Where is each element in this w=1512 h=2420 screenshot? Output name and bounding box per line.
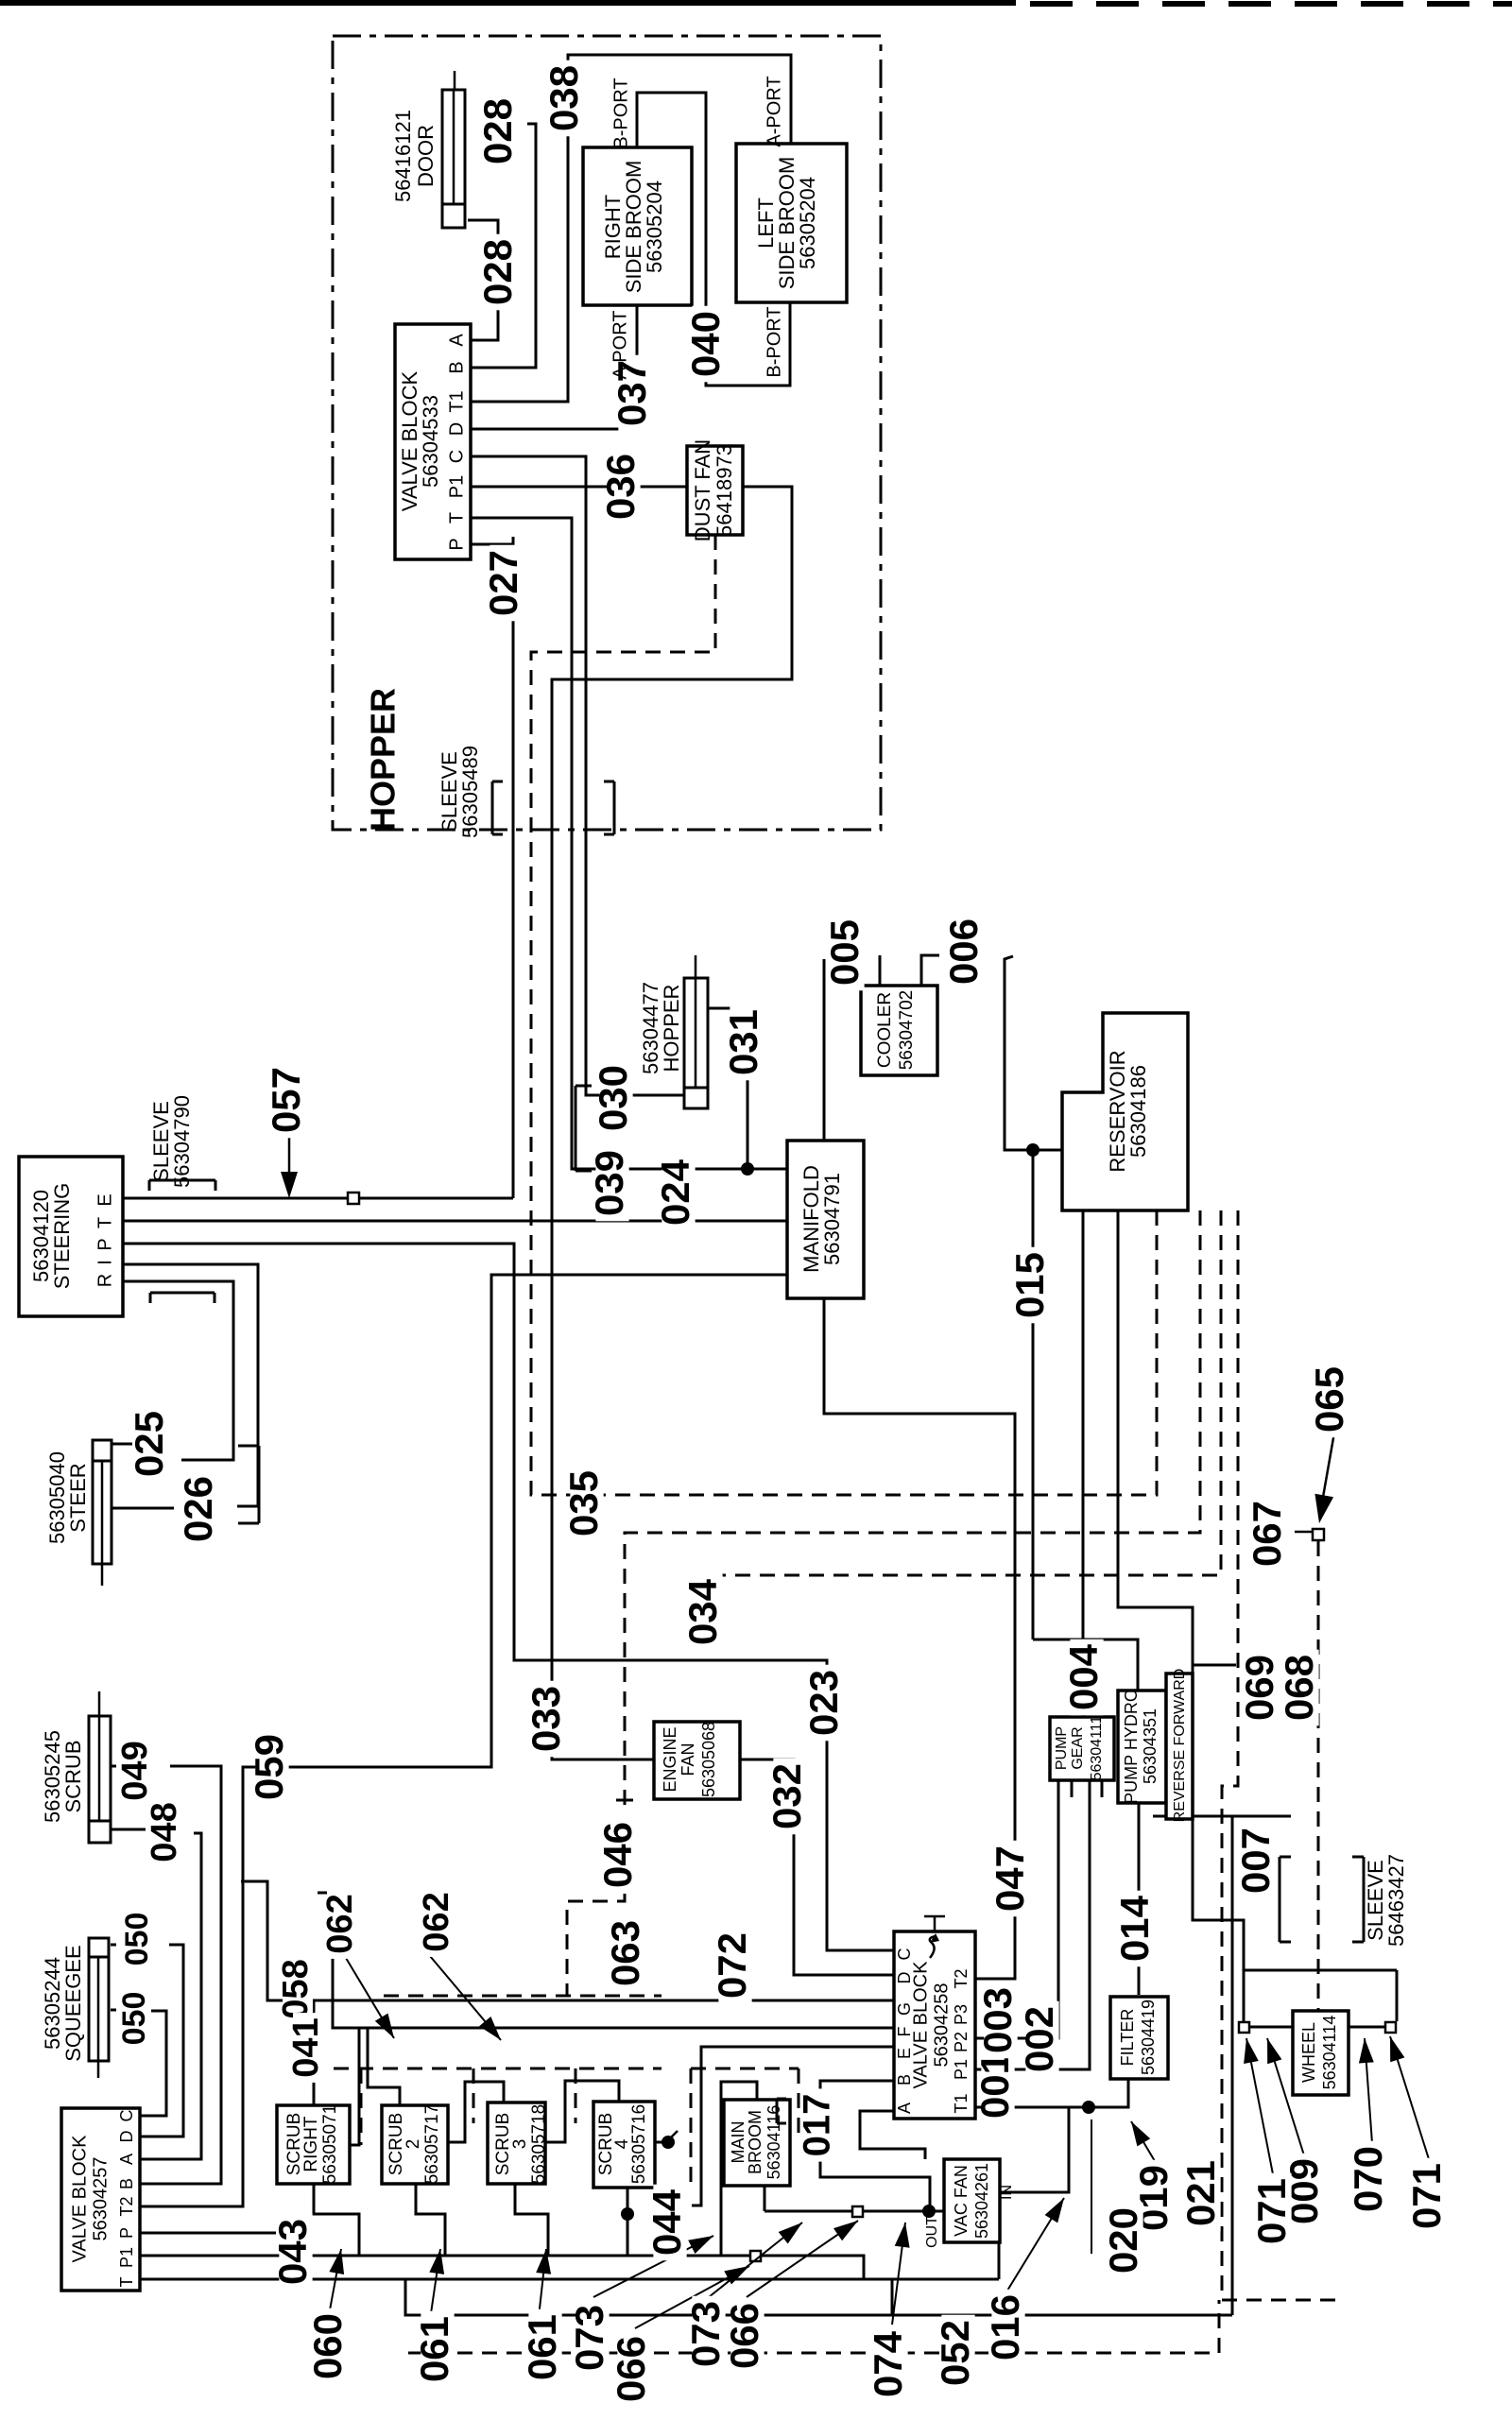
svg-text:073: 073 bbox=[683, 2301, 728, 2367]
svg-text:56463427: 56463427 bbox=[1384, 1854, 1408, 1947]
svg-text:3: 3 bbox=[510, 2139, 530, 2150]
svg-text:P: P bbox=[117, 2227, 136, 2239]
label 036 bbox=[607, 449, 640, 525]
cooler 56304702 bbox=[861, 986, 937, 1075]
066 leaders bbox=[635, 2266, 749, 2328]
wire 023: steering P to valve block C bbox=[123, 1244, 894, 1950]
svg-text:T: T bbox=[446, 512, 467, 523]
svg-text:D: D bbox=[446, 422, 467, 436]
svg-text:T: T bbox=[117, 2277, 136, 2288]
label 041 bbox=[293, 2013, 323, 2083]
svg-text:001: 001 bbox=[972, 2052, 1017, 2119]
wire 006: to reservoir bbox=[1005, 956, 1062, 1150]
svg-text:56305204: 56305204 bbox=[796, 177, 819, 269]
wire P1 bus to main broom bbox=[140, 2255, 721, 2257]
relief symbol on valve block 2 bbox=[924, 1915, 945, 1918]
svg-text:HOPPER: HOPPER bbox=[660, 985, 683, 1073]
svg-text:D: D bbox=[117, 2131, 136, 2143]
svg-text:062: 062 bbox=[320, 1894, 360, 1953]
hopper cylinder 56304477 bbox=[684, 978, 708, 1108]
label 040 bbox=[692, 306, 725, 383]
svg-text:014: 014 bbox=[1112, 1895, 1157, 1962]
label 007 bbox=[1242, 1823, 1275, 1899]
valve block 56304533 bbox=[395, 324, 471, 559]
manifold 56304791 bbox=[787, 1141, 864, 1298]
svg-text:T2: T2 bbox=[117, 2196, 136, 2216]
svg-text:VAC FAN: VAC FAN bbox=[952, 2165, 971, 2237]
svg-text:56305717: 56305717 bbox=[422, 2104, 442, 2185]
bracket near scrub lines bbox=[258, 1446, 261, 1523]
valve block 56304257 bbox=[61, 2108, 140, 2291]
wheel sleeve bracket left bbox=[1279, 1857, 1281, 1942]
svg-text:P1: P1 bbox=[952, 2059, 971, 2080]
svg-text:026: 026 bbox=[176, 1476, 220, 1542]
svg-text:B-PORT: B-PORT bbox=[764, 306, 784, 377]
svg-text:003: 003 bbox=[975, 1987, 1020, 2053]
svg-text:B: B bbox=[117, 2178, 136, 2189]
svg-text:56304419: 56304419 bbox=[1139, 2000, 1158, 2075]
scrub 2 56305717 bbox=[382, 2105, 448, 2184]
svg-text:B: B bbox=[895, 2074, 914, 2085]
wire 048: valve A to scrub cylinder cap bbox=[140, 1833, 201, 2159]
svg-text:P3: P3 bbox=[952, 2004, 971, 2025]
svg-text:061: 061 bbox=[412, 2316, 456, 2382]
reservoir to hydro pump loop bbox=[1118, 1210, 1244, 1970]
label 003 bbox=[984, 1982, 1017, 2059]
svg-text:RIGHT: RIGHT bbox=[301, 2116, 321, 2172]
svg-text:T1: T1 bbox=[952, 2093, 971, 2113]
label 058 bbox=[283, 1954, 313, 2024]
wire 040: right broom B to left broom B bbox=[637, 93, 790, 386]
074 leader bbox=[892, 2223, 905, 2325]
label 020 bbox=[1109, 2203, 1143, 2279]
svg-text:A: A bbox=[446, 334, 467, 347]
label 019 bbox=[1140, 2160, 1173, 2237]
left side broom 56305204 bbox=[736, 144, 847, 302]
svg-text:SQUEEGEE: SQUEEGEE bbox=[61, 1945, 85, 2061]
wheel 56304114 bbox=[1293, 2011, 1349, 2095]
cooler stubs bbox=[879, 955, 882, 986]
wire 036: valve P1 to dust fan bbox=[471, 486, 687, 489]
top page border bbox=[0, 0, 1016, 6]
svg-text:P: P bbox=[94, 1238, 115, 1250]
svg-text:56305204: 56305204 bbox=[643, 180, 666, 273]
svg-text:066: 066 bbox=[609, 2336, 653, 2402]
label 027 bbox=[490, 545, 523, 622]
svg-text:56304186: 56304186 bbox=[1126, 1065, 1150, 1158]
connector on steering E wire bbox=[348, 1193, 359, 1204]
small bracket near valve A bbox=[776, 2099, 779, 2123]
svg-text:015: 015 bbox=[1007, 1252, 1052, 1318]
065 leader arrow bbox=[1322, 1433, 1334, 1502]
svg-text:56305716: 56305716 bbox=[629, 2104, 649, 2185]
svg-text:A: A bbox=[117, 2154, 136, 2165]
svg-text:059: 059 bbox=[247, 1734, 291, 1800]
label 038 bbox=[550, 60, 583, 137]
reverse forward box bbox=[1166, 1673, 1193, 1819]
svg-text:56304111: 56304111 bbox=[1089, 1715, 1105, 1780]
sleeve bracket steering top bbox=[149, 1179, 215, 1182]
svg-text:020: 020 bbox=[1101, 2207, 1145, 2274]
wheel leaders 071 009 070 071 bbox=[1246, 2038, 1273, 2174]
svg-text:56418973: 56418973 bbox=[713, 444, 736, 537]
svg-text:017: 017 bbox=[797, 2094, 838, 2157]
svg-text:044: 044 bbox=[644, 2188, 689, 2256]
label 063 bbox=[611, 1915, 644, 1992]
wire 037: valve D to right broom A PORT bbox=[471, 305, 637, 429]
svg-text:065: 065 bbox=[1307, 1366, 1351, 1433]
svg-text:STEERING: STEERING bbox=[50, 1183, 74, 1289]
wire: hydro drain to right riser bbox=[1153, 1815, 1291, 1818]
label 074 bbox=[874, 2326, 907, 2403]
svg-text:STEER: STEER bbox=[66, 1463, 90, 1532]
scrub bottom jog drops to P1 bus bbox=[314, 2184, 359, 2256]
svg-text:021: 021 bbox=[1178, 2160, 1223, 2226]
wire 032: engine fan to valve block D bbox=[740, 1759, 894, 1975]
wire 062: valve block F bus bbox=[318, 1893, 894, 2028]
wire 001: pump gear to P1 bbox=[975, 1780, 1090, 2069]
svg-text:P2: P2 bbox=[952, 2032, 971, 2052]
svg-text:073: 073 bbox=[567, 2305, 611, 2371]
door cylinder arrow tick bbox=[458, 116, 465, 133]
svg-text:OUT: OUT bbox=[924, 2216, 940, 2248]
svg-text:MAIN: MAIN bbox=[729, 2121, 747, 2164]
label 073 bbox=[576, 2300, 609, 2377]
label 028 bbox=[484, 234, 517, 311]
svg-text:028: 028 bbox=[475, 239, 520, 305]
svg-text:F: F bbox=[895, 2027, 914, 2037]
svg-text:SCRUB: SCRUB bbox=[61, 1740, 85, 1812]
engine fan 56305068 bbox=[654, 1722, 740, 1799]
long bottom return wire bbox=[405, 2279, 1232, 2315]
svg-text:034: 034 bbox=[680, 1578, 725, 1645]
svg-text:071: 071 bbox=[1404, 2163, 1449, 2229]
svg-text:A: A bbox=[895, 2102, 914, 2114]
wire 015/004: reservoir to pumps bbox=[1032, 1150, 1035, 1639]
label 073 bbox=[692, 2296, 725, 2373]
svg-text:016: 016 bbox=[983, 2294, 1027, 2360]
wire 039: valve T to manifold bbox=[471, 518, 787, 1169]
svg-text:C: C bbox=[895, 1948, 914, 1961]
label 002 bbox=[1025, 2001, 1058, 2078]
scrub cylinder 56305245 bbox=[89, 1716, 111, 1843]
svg-text:C: C bbox=[446, 450, 467, 463]
svg-text:PUMP: PUMP bbox=[1054, 1726, 1070, 1770]
svg-text:BROOM: BROOM bbox=[746, 2110, 765, 2174]
061 leaders bbox=[430, 2249, 440, 2320]
label 044 bbox=[653, 2185, 686, 2261]
main broom 56304116 bbox=[724, 2100, 790, 2186]
svg-text:047: 047 bbox=[988, 1845, 1032, 1912]
wire 017: valve block B to vac fan junction bbox=[820, 2081, 930, 2211]
reservoir suction to pump gear bbox=[1082, 1210, 1085, 1717]
wire T bus bbox=[140, 2278, 999, 2281]
svg-text:FILTER: FILTER bbox=[1118, 2009, 1137, 2067]
svg-text:033: 033 bbox=[524, 1686, 568, 1752]
label 005 bbox=[831, 915, 864, 991]
svg-text:041: 041 bbox=[286, 2017, 326, 2077]
wire: T1 return to filter bbox=[975, 2079, 1128, 2107]
wire 049: valve B to scrub cylinder bbox=[140, 1766, 221, 2184]
label 060 bbox=[314, 2308, 347, 2385]
wire 038: valve T1 to left broom A-PORT bbox=[471, 55, 791, 402]
svg-text:E: E bbox=[895, 2048, 914, 2059]
label 050 bbox=[123, 1986, 150, 2050]
svg-text:069: 069 bbox=[1237, 1655, 1281, 1721]
label 066 bbox=[617, 2331, 650, 2408]
label 017 bbox=[803, 2088, 835, 2161]
svg-text:058: 058 bbox=[276, 1959, 316, 2018]
label 069 bbox=[1246, 1650, 1279, 1726]
svg-text:049: 049 bbox=[115, 1741, 155, 1800]
svg-text:067: 067 bbox=[1245, 1501, 1289, 1567]
svg-text:043: 043 bbox=[270, 2219, 315, 2285]
svg-text:002: 002 bbox=[1017, 2006, 1061, 2072]
svg-text:046: 046 bbox=[595, 1822, 640, 1888]
scrub right side port to F bus bbox=[347, 2028, 359, 2145]
svg-text:PUMP HYDRO: PUMP HYDRO bbox=[1122, 1689, 1141, 1804]
wire valve A to door cylinder (028) bbox=[468, 220, 498, 340]
label 070 bbox=[1354, 2141, 1387, 2218]
dashed wire 068: to wheel bbox=[1317, 1541, 1320, 2011]
svg-text:56304258: 56304258 bbox=[931, 1983, 952, 2068]
svg-text:071: 071 bbox=[1249, 2178, 1294, 2244]
label 001 bbox=[981, 2048, 1014, 2124]
svg-text:038: 038 bbox=[541, 65, 586, 131]
svg-text:T: T bbox=[94, 1217, 115, 1228]
label 037 bbox=[618, 355, 651, 432]
svg-text:050: 050 bbox=[116, 1992, 152, 2046]
label 032 bbox=[773, 1759, 806, 1835]
label 016 bbox=[991, 2290, 1024, 2366]
svg-text:56305489: 56305489 bbox=[458, 746, 482, 838]
sleeve bracket hopper left bbox=[491, 781, 494, 834]
073 leaders bbox=[593, 2236, 713, 2297]
020 leader bbox=[1091, 2120, 1092, 2254]
svg-text:ENGINE: ENGINE bbox=[661, 1726, 679, 1792]
wire 027: valve P / steering E bbox=[471, 537, 513, 544]
svg-text:G: G bbox=[895, 2002, 914, 2016]
label 028 bbox=[484, 94, 517, 170]
long dashed wire 021 bbox=[1222, 1210, 1338, 2300]
svg-text:56304261: 56304261 bbox=[972, 2163, 991, 2239]
label 068 bbox=[1285, 1650, 1318, 1726]
svg-text:040: 040 bbox=[683, 311, 728, 377]
svg-text:E: E bbox=[94, 1193, 115, 1206]
pump gear 56304111 bbox=[1050, 1717, 1114, 1780]
label 025 bbox=[135, 1406, 168, 1483]
svg-text:DUST FAN: DUST FAN bbox=[691, 439, 714, 541]
svg-text:072: 072 bbox=[710, 1932, 754, 1999]
svg-text:T1: T1 bbox=[446, 390, 467, 412]
dashed wire 034 bbox=[722, 1210, 1221, 1575]
svg-text:56304114: 56304114 bbox=[1320, 2016, 1339, 2090]
svg-text:068: 068 bbox=[1277, 1655, 1321, 1721]
svg-text:HOPPER: HOPPER bbox=[364, 688, 403, 832]
reservoir 56304186 bbox=[1062, 1013, 1188, 1210]
svg-text:052: 052 bbox=[933, 2320, 977, 2386]
svg-text:006: 006 bbox=[941, 918, 986, 985]
svg-text:060: 060 bbox=[305, 2313, 350, 2379]
svg-text:028: 028 bbox=[475, 98, 520, 164]
label 039 bbox=[595, 1145, 628, 1222]
scrub 2 top wire to F bus bbox=[368, 2028, 400, 2105]
060 leader bbox=[329, 2249, 341, 2315]
label 048 bbox=[151, 1797, 181, 1867]
label 035 bbox=[570, 1466, 603, 1542]
svg-text:56305718: 56305718 bbox=[529, 2104, 549, 2185]
wire 043: valve P to scrub right motor bbox=[140, 2232, 276, 2235]
wire 048b: valve C stub bbox=[140, 2011, 166, 2116]
label 014 bbox=[1121, 1891, 1154, 1967]
svg-text:A PORT: A PORT bbox=[610, 311, 630, 380]
wire: valve block A to vac fan top bbox=[860, 2111, 925, 2159]
right side broom 56305204 bbox=[583, 147, 692, 305]
svg-text:023: 023 bbox=[801, 1670, 846, 1736]
062 leader arrows bbox=[346, 1958, 394, 2038]
svg-text:061: 061 bbox=[520, 2314, 564, 2380]
label 050 bbox=[126, 1907, 153, 1970]
scrub 3 56305718 bbox=[488, 2102, 545, 2184]
wire 031: hopper cylinder to manifold wire bbox=[708, 1008, 748, 1015]
svg-text:56304257: 56304257 bbox=[90, 2157, 111, 2241]
label 043 bbox=[279, 2214, 312, 2291]
svg-text:T2: T2 bbox=[952, 1968, 971, 1988]
svg-text:030: 030 bbox=[591, 1065, 635, 1131]
svg-text:56304702: 56304702 bbox=[897, 990, 917, 1071]
svg-text:56304533: 56304533 bbox=[419, 395, 442, 488]
sleeve bracket mid bbox=[575, 1086, 577, 1171]
label 046 bbox=[604, 1817, 637, 1894]
svg-text:048: 048 bbox=[145, 1802, 184, 1862]
svg-text:005: 005 bbox=[822, 919, 867, 986]
wire 058: valve block G bus bbox=[241, 1881, 894, 2000]
dust fan 56418973 bbox=[687, 446, 743, 535]
svg-text:B-PORT: B-PORT bbox=[610, 77, 631, 148]
svg-text:WHEEL: WHEEL bbox=[1299, 2022, 1318, 2083]
svg-text:063: 063 bbox=[603, 1920, 647, 1986]
svg-text:56304116: 56304116 bbox=[765, 2105, 783, 2180]
label 071 bbox=[1258, 2173, 1291, 2250]
057 arrow bbox=[288, 1132, 291, 1172]
valve block 56304258 bbox=[894, 1931, 975, 2119]
svg-text:REVERSE FORWARD: REVERSE FORWARD bbox=[1172, 1669, 1188, 1823]
wheel circuit bbox=[1244, 1969, 1397, 1972]
label 009 bbox=[1290, 2154, 1323, 2230]
label 047 bbox=[996, 1841, 1029, 1917]
wire 025: steering R to steer cylinder cap bbox=[123, 1281, 233, 1460]
svg-text:VALVE BLOCK: VALVE BLOCK bbox=[69, 2135, 90, 2263]
label 031 bbox=[730, 1004, 763, 1081]
wire 005: manifold top bbox=[823, 959, 826, 1141]
label 072 bbox=[718, 1928, 751, 2004]
svg-text:56304791: 56304791 bbox=[820, 1173, 844, 1265]
label 062 bbox=[327, 1889, 357, 1959]
scrub 4 56305716 bbox=[593, 2102, 655, 2188]
wire 024: steering T to manifold bbox=[123, 1220, 787, 1223]
label 024 bbox=[661, 1155, 695, 1231]
label 065 bbox=[1315, 1362, 1349, 1438]
filter 56304419 bbox=[1110, 1997, 1168, 2079]
svg-text:035: 035 bbox=[561, 1470, 606, 1536]
svg-text:036: 036 bbox=[598, 454, 643, 520]
dashed wire 035: dust fan bottom to reservoir bbox=[531, 535, 1157, 1495]
svg-text:025: 025 bbox=[127, 1411, 171, 1477]
svg-text:I: I bbox=[94, 1260, 115, 1265]
065 connector square bbox=[1313, 1529, 1324, 1540]
label 021 bbox=[1187, 2155, 1220, 2232]
scrub right 56305071 bbox=[277, 2105, 350, 2184]
label 049 bbox=[122, 1736, 152, 1806]
label 004 bbox=[1070, 1639, 1103, 1716]
svg-text:031: 031 bbox=[721, 1009, 765, 1075]
label 071 bbox=[1413, 2158, 1446, 2235]
scrub 3 to scrub 4 chain bbox=[545, 2081, 619, 2142]
vac fan 56304261 bbox=[944, 2159, 1000, 2242]
svg-text:GEAR: GEAR bbox=[1070, 1726, 1086, 1769]
svg-text:P1: P1 bbox=[117, 2247, 136, 2268]
svg-text:56305068: 56305068 bbox=[699, 1722, 718, 1797]
svg-text:P: P bbox=[446, 538, 467, 550]
svg-text:COOLER: COOLER bbox=[875, 992, 895, 1068]
door cylinder 56416121 bbox=[442, 90, 465, 228]
wire 059: manifold to label bbox=[140, 1275, 787, 2206]
svg-text:066: 066 bbox=[722, 2303, 766, 2369]
wire 044: scrub4/main broom to vac fan OUT bbox=[627, 2188, 629, 2256]
svg-text:007: 007 bbox=[1233, 1828, 1278, 1894]
scrub deck dashed outline bbox=[384, 1995, 661, 1998]
wheel sleeve bracket right bbox=[1363, 1857, 1366, 1942]
label 066 bbox=[730, 2298, 764, 2375]
svg-text:050: 050 bbox=[119, 1913, 155, 1966]
scrub 2 to scrub 3 chain bbox=[445, 2082, 504, 2142]
pump hydro 56304351 bbox=[1118, 1691, 1166, 1803]
squeegee cylinder 56305244 bbox=[89, 1938, 109, 2061]
067 tick bbox=[1295, 1531, 1313, 1534]
svg-text:C: C bbox=[117, 2110, 136, 2122]
016 leader bbox=[1007, 2198, 1064, 2291]
svg-text:062: 062 bbox=[417, 1892, 456, 1951]
wire 069: hydro pump reverse port bbox=[1193, 1664, 1236, 1667]
label 006 bbox=[950, 914, 983, 990]
steering 56304120 bbox=[19, 1157, 123, 1316]
svg-text:032: 032 bbox=[765, 1763, 809, 1829]
svg-text:057: 057 bbox=[264, 1067, 308, 1133]
svg-text:A-PORT: A-PORT bbox=[764, 76, 784, 146]
019 leader bbox=[1131, 2121, 1155, 2161]
wire: valve block E to main broom area bbox=[692, 2047, 894, 2205]
label 052 bbox=[941, 2315, 974, 2392]
svg-text:2: 2 bbox=[404, 2139, 423, 2150]
label 034 bbox=[689, 1574, 722, 1651]
svg-text:004: 004 bbox=[1061, 1643, 1106, 1710]
scrub right top wire to G bus (041) bbox=[313, 2000, 316, 2105]
svg-text:56304790: 56304790 bbox=[170, 1095, 194, 1188]
wire 016: vac fan IN to return bbox=[1000, 2107, 1069, 2192]
hopper boundary dash-dot box bbox=[333, 36, 881, 830]
junction dots bbox=[741, 1162, 754, 1176]
scrub port stubs with plugs bbox=[655, 2141, 664, 2144]
svg-text:027: 027 bbox=[481, 550, 525, 616]
wire valve B hooked end bbox=[471, 124, 536, 368]
label 015 bbox=[1016, 1247, 1049, 1324]
svg-text:IN: IN bbox=[999, 2185, 1015, 2200]
label 030 bbox=[599, 1060, 632, 1137]
svg-text:FAN: FAN bbox=[679, 1742, 697, 1776]
svg-text:56416121: 56416121 bbox=[391, 110, 415, 202]
dashed wire 046: reservoir line B bbox=[625, 1210, 1200, 1814]
svg-text:R: R bbox=[94, 1274, 115, 1287]
